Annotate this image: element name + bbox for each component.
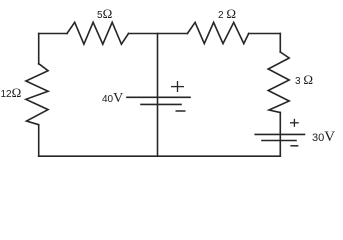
battery V1 minus sign bbox=[176, 110, 186, 112]
wire left vertical upper bbox=[38, 34, 40, 65]
svg-text:3 Ω: 3 Ω bbox=[295, 72, 313, 87]
svg-text:5Ω: 5Ω bbox=[97, 6, 112, 21]
svg-text:40V: 40V bbox=[102, 91, 123, 106]
resistor R3 12ohm bbox=[26, 64, 48, 125]
battery V1 40V long plate bbox=[127, 96, 190, 98]
wire right vertical middle-lower bbox=[279, 113, 281, 157]
battery V2 plus sign bbox=[290, 119, 299, 127]
resistor R2 2ohm bbox=[187, 22, 248, 43]
svg-text:12Ω: 12Ω bbox=[1, 85, 22, 100]
wire top-right horizontal bbox=[249, 33, 281, 35]
svg-text:30V: 30V bbox=[312, 129, 335, 145]
battery V1 40V short plate bbox=[141, 103, 181, 105]
wire right vertical upper bbox=[279, 34, 281, 53]
battery V2 minus sign bbox=[290, 145, 298, 147]
battery V2 30V short plate bbox=[262, 140, 296, 142]
wire middle vertical bbox=[157, 34, 159, 157]
wire top-left horizontal bbox=[39, 33, 67, 35]
svg-text:2 Ω: 2 Ω bbox=[218, 6, 236, 21]
wire top-middle horizontal bbox=[129, 33, 188, 35]
resistor R1 5ohm bbox=[67, 22, 129, 44]
battery V1 plus sign bbox=[171, 81, 184, 92]
battery V2 30V long plate bbox=[255, 133, 304, 135]
wire left vertical lower bbox=[38, 125, 40, 157]
wire bottom horizontal bbox=[39, 155, 281, 157]
resistor R4 3ohm bbox=[268, 52, 289, 113]
